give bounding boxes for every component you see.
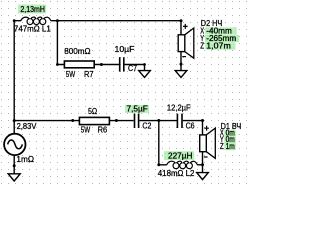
- minus terminal D2: [182, 56, 186, 58]
- wire L2 row horizontal: [159, 164, 203, 166]
- wire R7 row horizontal: [57, 65, 144, 71]
- svg-text:5Ω: 5Ω: [88, 106, 97, 116]
- label L1 value highlighted: [18, 4, 46, 14]
- svg-text:7,5µF: 7,5µF: [127, 104, 148, 114]
- wire D1 speaker vertical: [202, 121, 204, 173]
- svg-text:1mΩ: 1mΩ: [16, 154, 34, 164]
- node D2 ground: [180, 63, 183, 66]
- svg-text:C7: C7: [128, 63, 137, 73]
- svg-text:1,07m: 1,07m: [206, 40, 231, 50]
- capacitor C7: [119, 57, 125, 71]
- svg-text:5W: 5W: [81, 124, 91, 134]
- svg-text:5W: 5W: [66, 69, 76, 79]
- label L2 value highlighted: [164, 150, 194, 160]
- svg-text:418mΩ L2: 418mΩ L2: [158, 168, 195, 178]
- wire D2 speaker vertical: [180, 21, 182, 71]
- node L2 left: [157, 163, 160, 166]
- label D2 Y row: [200, 33, 239, 43]
- node L1 output junction: [56, 19, 59, 22]
- resistor R7: [64, 61, 94, 68]
- svg-text:R6: R6: [98, 124, 108, 134]
- wire middle rail horizontal: [14, 120, 202, 122]
- svg-text:10µF: 10µF: [115, 44, 135, 54]
- svg-text:R7: R7: [84, 69, 94, 79]
- wire left rail vertical: [13, 21, 15, 174]
- node L2 right D1 ground: [201, 163, 204, 166]
- label D1 Z row: [220, 141, 236, 151]
- ground for source: [8, 174, 20, 181]
- node R6 left: [71, 119, 74, 122]
- node D2 top: [180, 19, 183, 22]
- svg-text:800mΩ: 800mΩ: [64, 46, 90, 56]
- node R6-C2: [115, 119, 118, 122]
- wire R7 branch vertical from top junction: [56, 21, 58, 65]
- ground for C7 branch: [139, 71, 151, 78]
- wire top rail horizontal: [14, 20, 181, 22]
- svg-text:12,2µF: 12,2µF: [167, 103, 191, 113]
- capacitor C6: [177, 114, 183, 128]
- svg-text:C2: C2: [142, 120, 151, 130]
- node R7 elbow: [56, 63, 59, 66]
- node source ground: [13, 164, 16, 167]
- label D1 X row: [220, 127, 236, 137]
- svg-text:747mΩ L1: 747mΩ L1: [14, 23, 51, 33]
- capacitor C2: [134, 114, 140, 128]
- minus terminal D1: [204, 156, 208, 158]
- node C7 ground elbow: [143, 63, 146, 66]
- inductor L1: [21, 17, 51, 25]
- grid dots: [0, 0, 250, 185]
- ground for D2: [175, 71, 187, 78]
- node top-left corner: [13, 19, 16, 22]
- svg-text:2,83V: 2,83V: [17, 121, 37, 131]
- svg-text:1m: 1m: [226, 141, 235, 151]
- svg-text:C6: C6: [186, 121, 195, 131]
- wire L2 branch vertical: [158, 121, 160, 165]
- label C2 value highlighted: [125, 104, 149, 114]
- label D2 Z row: [200, 40, 235, 50]
- svg-text:Z: Z: [200, 40, 204, 50]
- node D1 top: [201, 119, 204, 122]
- speaker D1: [200, 128, 216, 158]
- label D2 X row: [200, 25, 237, 35]
- node C2-C6 L2 tap: [157, 119, 160, 122]
- inductor L2: [167, 161, 198, 169]
- svg-text:Z: Z: [220, 141, 224, 151]
- AC source V1: [4, 134, 25, 155]
- plus terminal D2: [183, 24, 188, 29]
- label D1 Y row: [220, 134, 236, 144]
- resistor R6: [79, 117, 109, 124]
- node R7-C7: [100, 63, 103, 66]
- svg-text:227µH: 227µH: [168, 150, 192, 160]
- plus terminal D1: [204, 126, 209, 131]
- ground for D1: [197, 173, 209, 180]
- speaker D2: [178, 28, 194, 58]
- node source top: [13, 119, 16, 122]
- svg-text:2,13mH: 2,13mH: [20, 4, 45, 14]
